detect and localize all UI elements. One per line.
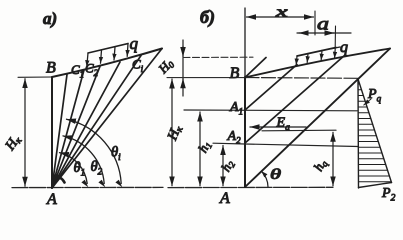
- ground line a: [12, 186, 163, 188]
- pressure hatching: [358, 84, 391, 182]
- dimension x: [247, 16, 314, 18]
- level A2: [213, 143, 358, 146]
- svg-text:h2: h2: [218, 157, 238, 175]
- svg-text:б): б): [200, 7, 215, 28]
- svg-text:Н0: Н0: [155, 55, 177, 77]
- load arrow 1 b: [295, 56, 298, 65]
- dimension h2: [222, 146, 224, 186]
- tick x right: [314, 11, 316, 35]
- arc thetai: [67, 119, 122, 183]
- svg-text:Сi: Сi: [132, 57, 144, 75]
- slip line from B: [245, 58, 266, 78]
- wall AB b: [244, 77, 246, 187]
- tick B level a: [18, 76, 52, 78]
- svg-text:А: А: [219, 190, 230, 206]
- load arrow 2 a: [101, 50, 102, 63]
- dimension H0: [182, 40, 184, 96]
- arrow a left: [299, 32, 308, 34]
- slip line from A: [245, 49, 390, 188]
- level hq: [262, 129, 336, 132]
- svg-text:q: q: [340, 39, 348, 56]
- ray 4: [52, 62, 120, 188]
- dimension hq: [332, 132, 334, 186]
- arrow Pq: [364, 99, 371, 105]
- q leader dash b: [331, 47, 340, 49]
- arrow H0 bottom: [182, 79, 184, 88]
- svg-text:hq: hq: [310, 156, 330, 174]
- svg-text:Еа: Еа: [276, 116, 291, 134]
- load arrow 1 a: [87, 53, 88, 67]
- svg-text:В: В: [230, 65, 240, 82]
- dashed level H0: [183, 56, 253, 58]
- arc theta b: [262, 171, 269, 187]
- load q bar a: [88, 44, 128, 54]
- pressure diagram bottom edge: [359, 183, 392, 188]
- load arrow 3 a: [114, 47, 115, 60]
- surface b: [245, 49, 390, 78]
- pressure diagram left edge: [357, 79, 360, 188]
- ray 2: [52, 70, 84, 188]
- small arc at A: [54, 176, 64, 183]
- dimension h1: [199, 112, 201, 186]
- arc theta1: [60, 153, 88, 184]
- dimension a: [297, 32, 351, 34]
- load arrow 4 a: [126, 44, 129, 57]
- arc theta2: [63, 136, 104, 184]
- ray 6: [52, 49, 162, 189]
- dimension Hk b: [171, 79, 173, 186]
- surface BC a: [52, 49, 162, 78]
- svg-text:h1: h1: [195, 138, 214, 155]
- load arrow 4 b: [334, 48, 337, 58]
- ray 3: [52, 66, 100, 188]
- wall AB a: [51, 77, 53, 188]
- level line B to pressure apex: [245, 77, 358, 80]
- svg-text:Нк: Нк: [2, 132, 24, 154]
- dimension Hk a: [24, 79, 26, 187]
- svg-text:а): а): [43, 9, 57, 28]
- svg-text:Р2: Р2: [381, 186, 396, 204]
- tick a right: [334, 26, 336, 47]
- load arrow 3 b: [320, 50, 323, 60]
- load arrow 2 b: [306, 54, 309, 63]
- load q bar b: [297, 48, 336, 57]
- slip line from A1: [245, 65, 297, 111]
- arrow a right: [325, 32, 334, 34]
- level A1: [184, 109, 357, 112]
- svg-text:С2: С2: [85, 61, 99, 79]
- svg-text:А2: А2: [227, 129, 242, 146]
- svg-text:q: q: [130, 34, 139, 53]
- svg-text:Нк: Нк: [165, 123, 186, 144]
- svg-text:С1: С1: [71, 62, 84, 80]
- arrow H0 top: [182, 46, 184, 57]
- slip line from A2: [245, 55, 345, 143]
- svg-text:х: х: [274, 5, 288, 21]
- svg-text:θ1: θ1: [74, 160, 86, 178]
- svg-text:а: а: [317, 14, 329, 34]
- wall extension above B: [244, 8, 246, 77]
- force Ea arrow: [250, 126, 306, 128]
- svg-text:θ2: θ2: [91, 159, 103, 177]
- svg-text:θi: θi: [111, 145, 121, 163]
- svg-text:А1: А1: [229, 100, 243, 117]
- tick B level b: [167, 77, 245, 79]
- svg-text:В: В: [46, 60, 56, 77]
- pressure diagram right edge: [358, 79, 392, 183]
- ray 1: [52, 75, 67, 189]
- svg-text:θ: θ: [270, 167, 282, 183]
- svg-text:А: А: [46, 191, 57, 206]
- ground line b: [168, 186, 333, 188]
- ray 5: [52, 56, 141, 189]
